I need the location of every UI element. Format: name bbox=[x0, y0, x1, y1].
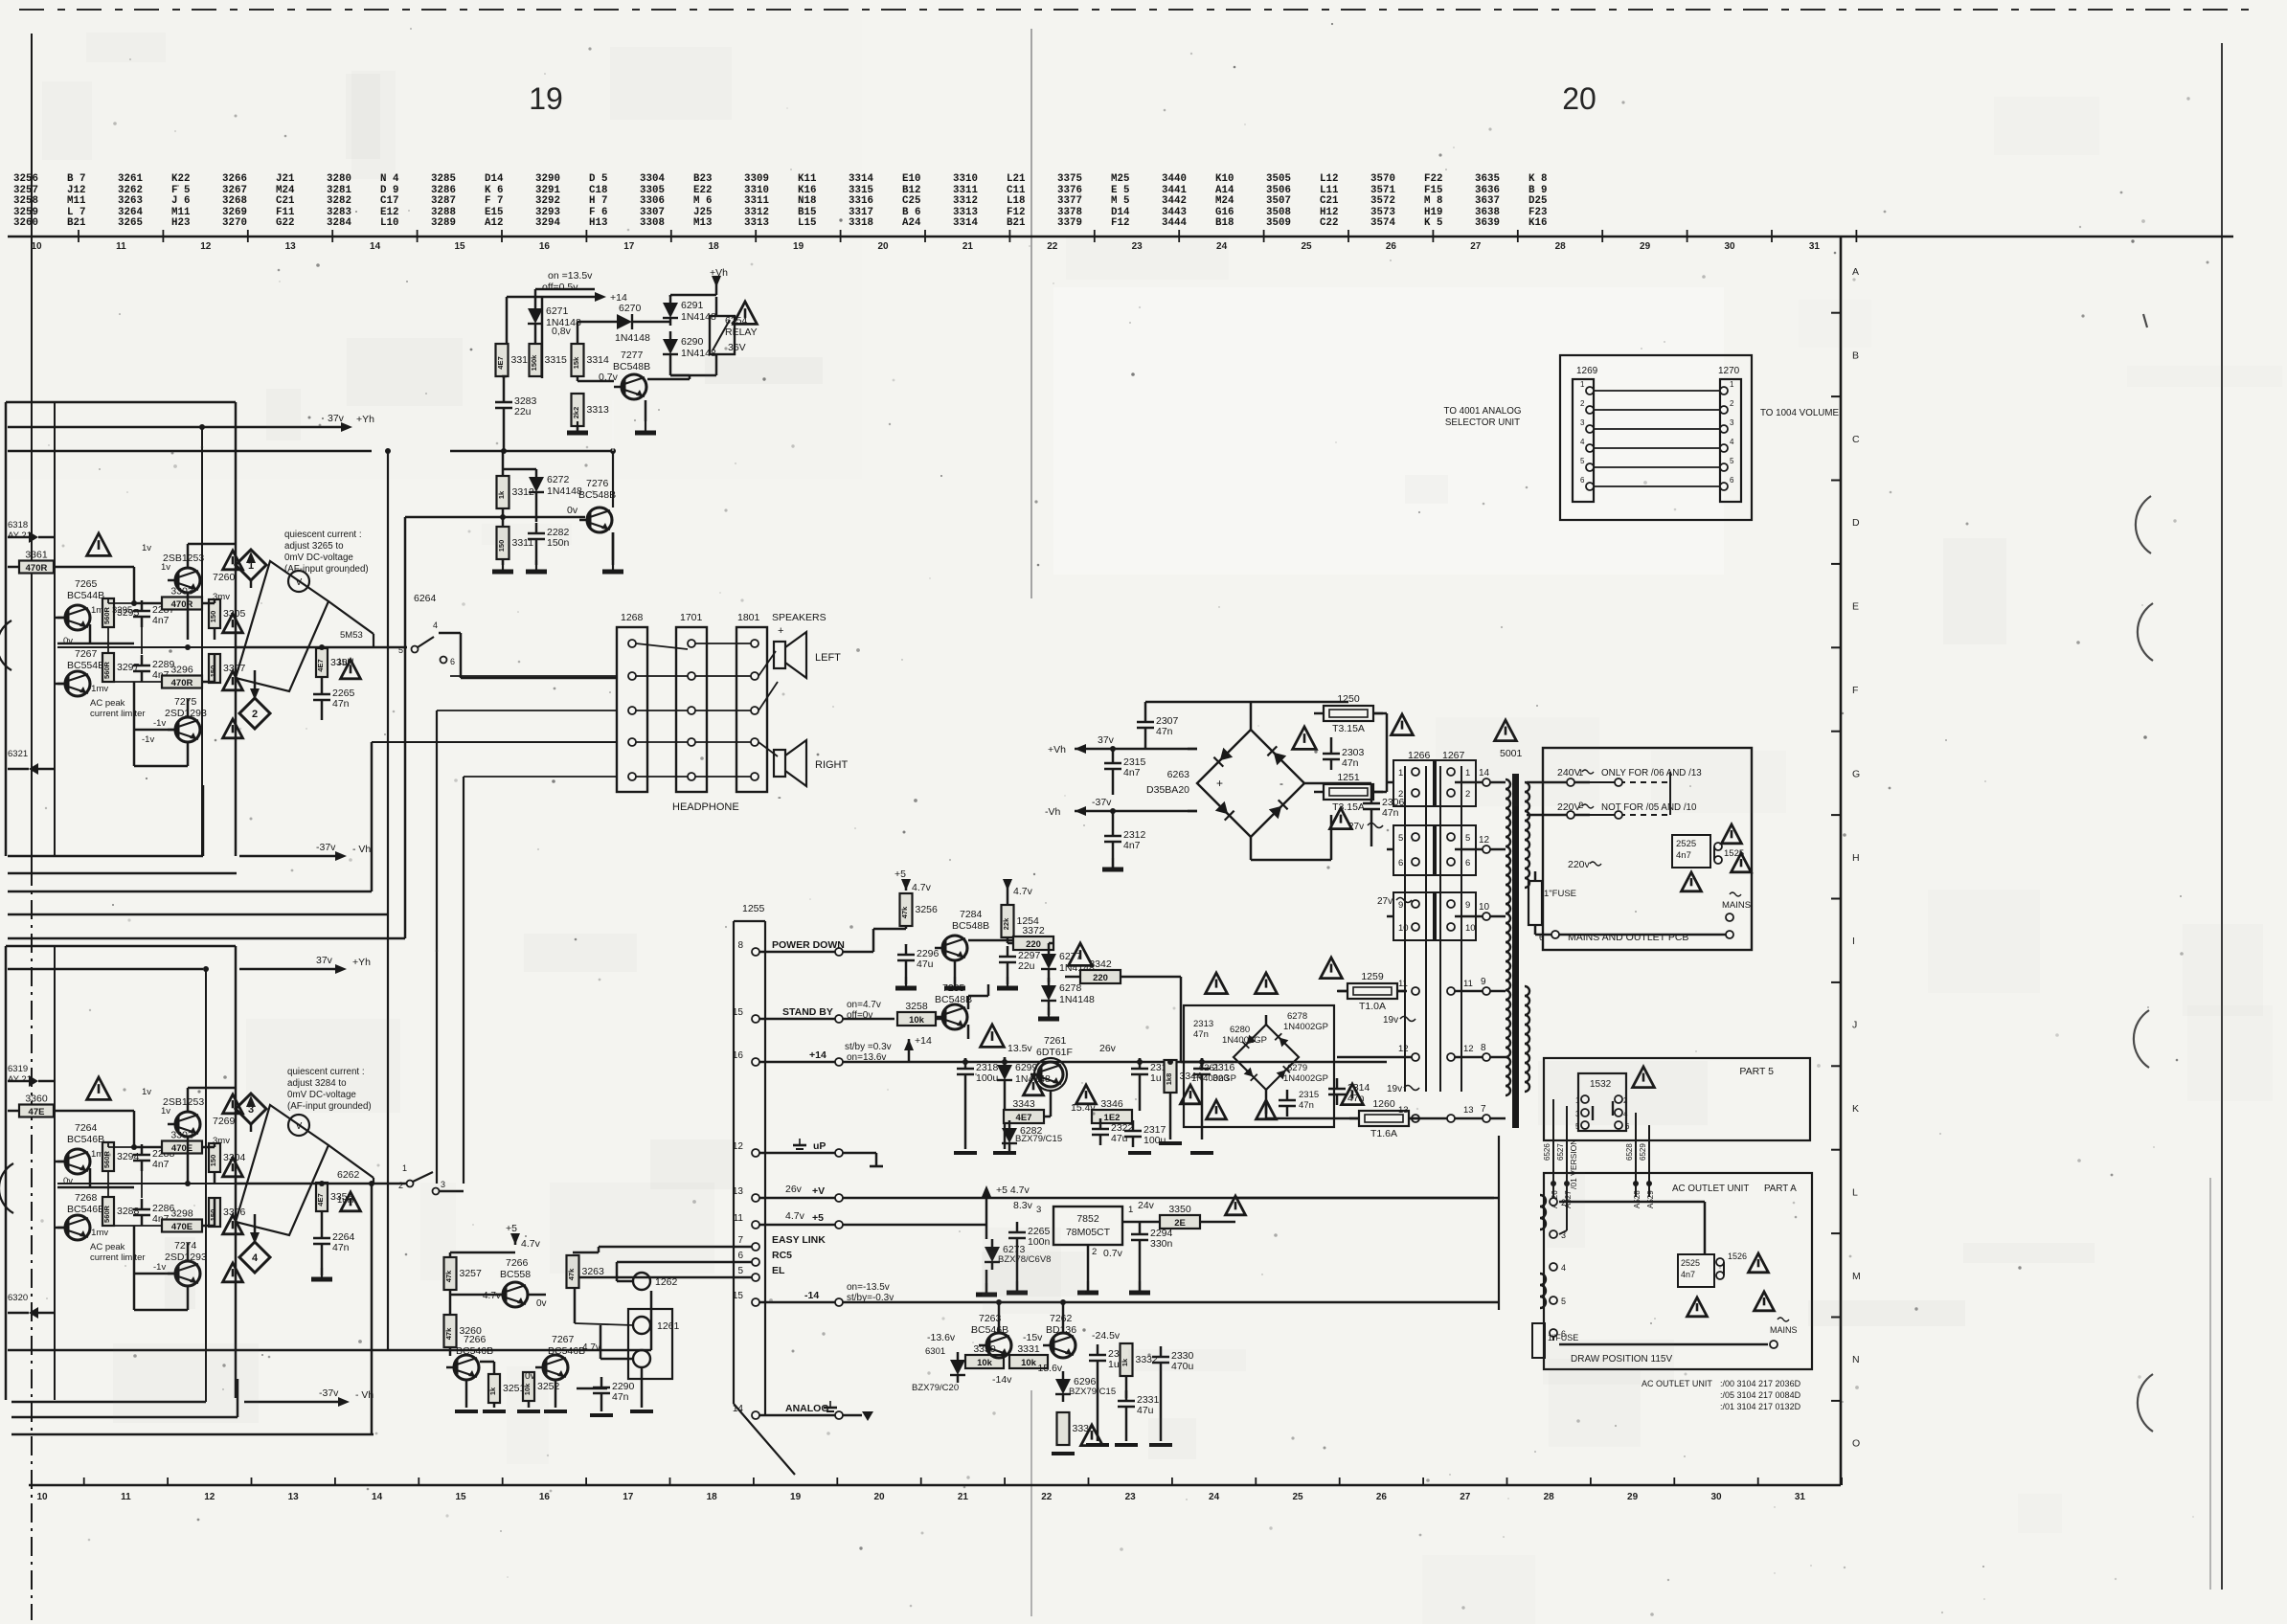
svg-text:14: 14 bbox=[370, 241, 381, 252]
svg-text:6271: 6271 bbox=[546, 305, 569, 317]
svg-text:150: 150 bbox=[209, 665, 217, 678]
svg-text:1N4148: 1N4148 bbox=[547, 485, 582, 497]
svg-text:BC558: BC558 bbox=[500, 1269, 531, 1280]
connector circles 1262 1261 bbox=[633, 1273, 650, 1290]
svg-text:6290: 6290 bbox=[681, 336, 704, 348]
warning row below bridge bbox=[1207, 1100, 1227, 1119]
wire +Yh lower rail bbox=[8, 968, 203, 971]
svg-text:10: 10 bbox=[36, 1492, 48, 1502]
warning bbox=[1749, 1253, 1769, 1273]
wire vertical x484 bbox=[463, 777, 464, 1184]
ground bbox=[905, 977, 907, 988]
svg-text:6301: 6301 bbox=[925, 1346, 945, 1357]
wire interlink 2 bbox=[1586, 406, 1594, 414]
svg-text:16: 16 bbox=[539, 241, 551, 252]
switch 1525 bbox=[1714, 843, 1722, 850]
svg-text:1v: 1v bbox=[161, 1106, 170, 1116]
svg-text:19v: 19v bbox=[1383, 1015, 1398, 1026]
svg-text:470R: 470R bbox=[26, 563, 48, 574]
svg-text:MAINS: MAINS bbox=[1722, 900, 1751, 911]
svg-text:22: 22 bbox=[1041, 1492, 1053, 1502]
svg-text:4n7: 4n7 bbox=[1123, 767, 1141, 778]
wire bbox=[55, 617, 65, 620]
svg-text:PART A: PART A bbox=[1764, 1184, 1797, 1194]
svg-text:22u: 22u bbox=[514, 406, 532, 417]
resistor 3360 470R bbox=[19, 1105, 54, 1117]
resistor 3316 bbox=[496, 344, 509, 376]
svg-text:3263: 3263 bbox=[118, 195, 143, 207]
capacitor 2264 47n bbox=[313, 1237, 330, 1240]
wire el row bbox=[575, 1276, 752, 1279]
svg-text:11: 11 bbox=[121, 1492, 131, 1502]
wire interlink 3 bbox=[1586, 425, 1594, 433]
svg-text:3284: 3284 bbox=[327, 217, 351, 229]
wire +5 row bbox=[759, 1224, 835, 1227]
svg-text:-15.6v: -15.6v bbox=[1034, 1363, 1063, 1374]
svg-text:8.3v: 8.3v bbox=[1013, 1200, 1033, 1211]
svg-text:AY 21: AY 21 bbox=[8, 530, 32, 541]
svg-text:47n: 47n bbox=[332, 698, 350, 710]
diode 6296 BZX79/C15 bbox=[1055, 1379, 1071, 1394]
svg-text:47E: 47E bbox=[29, 1107, 45, 1117]
svg-text:BC544B: BC544B bbox=[67, 590, 104, 601]
svg-text:13.5v: 13.5v bbox=[1008, 1043, 1032, 1054]
svg-text:3350: 3350 bbox=[1168, 1204, 1191, 1215]
capacitor 2317 100u bbox=[1124, 1130, 1142, 1133]
diode 6290 1N4148 bbox=[663, 339, 678, 354]
resistor 3302 470R bbox=[162, 1141, 202, 1154]
wire -14 row components bbox=[998, 1302, 1001, 1333]
svg-text:7852: 7852 bbox=[1076, 1213, 1099, 1225]
svg-text:150: 150 bbox=[209, 1209, 217, 1222]
relay 1532 bbox=[1578, 1073, 1626, 1131]
svg-text:D14: D14 bbox=[485, 173, 504, 185]
svg-text:4.7v: 4.7v bbox=[483, 1291, 501, 1301]
ground bbox=[985, 1283, 987, 1295]
svg-text:+Vh: +Vh bbox=[710, 267, 728, 279]
warning bbox=[341, 660, 361, 679]
resistor 3263 47k bbox=[567, 1255, 579, 1288]
resistor 3294 560R bbox=[102, 1142, 114, 1171]
svg-text:+5: +5 bbox=[894, 868, 906, 880]
svg-text:BZX79/C15: BZX79/C15 bbox=[1015, 1134, 1062, 1144]
ground bar bbox=[993, 1151, 1016, 1155]
svg-text:78M05CT: 78M05CT bbox=[1066, 1227, 1111, 1238]
svg-text:9: 9 bbox=[1481, 977, 1486, 987]
svg-text:6528: 6528 bbox=[1625, 1143, 1634, 1161]
svg-text:1N4002GP: 1N4002GP bbox=[1283, 1022, 1328, 1032]
wire bbox=[577, 321, 609, 324]
wire lower x484 to bus bbox=[439, 1190, 464, 1193]
wire riser x388 bbox=[371, 742, 374, 891]
svg-text:10: 10 bbox=[1465, 923, 1476, 934]
svg-text:TO 4001 ANALOG: TO 4001 ANALOG bbox=[1444, 406, 1522, 417]
svg-text:0mV DC-voltage: 0mV DC-voltage bbox=[284, 553, 353, 563]
svg-text:A: A bbox=[1852, 266, 1859, 278]
warning bbox=[87, 1077, 111, 1099]
svg-text:4n7: 4n7 bbox=[1123, 840, 1141, 851]
svg-text:AC OUTLET UNIT: AC OUTLET UNIT bbox=[1672, 1184, 1749, 1194]
svg-text:3314: 3314 bbox=[587, 354, 610, 366]
wire -37Vh bus bbox=[8, 855, 203, 858]
svg-text:H 7: H 7 bbox=[589, 195, 607, 207]
svg-text:24v: 24v bbox=[1138, 1200, 1155, 1211]
scan artifacts right margin bbox=[2136, 496, 2151, 553]
svg-text:7: 7 bbox=[1481, 1104, 1486, 1115]
wire interlink 5 bbox=[1586, 463, 1594, 471]
svg-text:3: 3 bbox=[1730, 418, 1734, 427]
svg-text:11: 11 bbox=[1463, 979, 1473, 989]
wire bbox=[55, 1161, 65, 1163]
center page fold line bbox=[1030, 29, 1032, 598]
svg-text:4.7v: 4.7v bbox=[785, 1210, 805, 1222]
wire bbox=[449, 1290, 452, 1314]
resistor 3330 10k bbox=[965, 1355, 1004, 1368]
warning bbox=[223, 1215, 243, 1234]
svg-text:21: 21 bbox=[962, 241, 974, 252]
meter V circle bbox=[288, 1115, 309, 1136]
svg-text:M11: M11 bbox=[67, 195, 86, 207]
wire lower bus rows bbox=[8, 1349, 651, 1352]
svg-text:15k: 15k bbox=[572, 356, 580, 369]
resistor 3256 47k bbox=[900, 893, 913, 926]
svg-text:1k8: 1k8 bbox=[1165, 1073, 1173, 1086]
wire main row y=471 bbox=[450, 450, 613, 453]
svg-text:B21: B21 bbox=[1007, 217, 1026, 229]
svg-text:4.7v: 4.7v bbox=[1013, 886, 1033, 897]
svg-text:M 5: M 5 bbox=[1111, 195, 1129, 207]
svg-text:0,8v: 0,8v bbox=[552, 326, 572, 337]
connector 1266 column bbox=[1404, 766, 1406, 1092]
wire relay branch bbox=[669, 295, 672, 297]
svg-text:7262: 7262 bbox=[1050, 1313, 1073, 1324]
parts list text band bbox=[13, 173, 1547, 229]
svg-text:4E7: 4E7 bbox=[316, 659, 325, 671]
mains and outlet PCB box bbox=[1543, 748, 1752, 950]
svg-text:K 8: K 8 bbox=[1528, 173, 1547, 185]
warning bbox=[223, 1263, 243, 1282]
svg-text:330n: 330n bbox=[1150, 1238, 1173, 1250]
svg-text:2: 2 bbox=[398, 1181, 403, 1190]
svg-text:12: 12 bbox=[1479, 835, 1490, 846]
resistor 3306 150R bbox=[209, 1198, 220, 1227]
svg-text:0v: 0v bbox=[567, 505, 578, 516]
svg-text:1v: 1v bbox=[142, 543, 151, 553]
svg-text:9: 9 bbox=[1465, 900, 1470, 911]
meter V circle bbox=[288, 571, 309, 592]
wire emitter bbox=[612, 451, 614, 507]
svg-text:F 7: F 7 bbox=[485, 195, 503, 207]
svg-text:N18: N18 bbox=[798, 195, 816, 207]
svg-text:3282: 3282 bbox=[327, 195, 351, 207]
svg-text:3315: 3315 bbox=[545, 354, 568, 366]
pin 15 STAND BY bbox=[752, 1015, 759, 1023]
capacitor 2322 47u bbox=[1092, 1128, 1109, 1131]
svg-text:20: 20 bbox=[1562, 81, 1596, 116]
svg-text:RIGHT: RIGHT bbox=[815, 759, 849, 771]
svg-text:3440: 3440 bbox=[1162, 173, 1187, 185]
svg-text:3312: 3312 bbox=[953, 195, 978, 207]
svg-text:AC peak: AC peak bbox=[90, 1242, 125, 1252]
pin 11 +5 bbox=[752, 1221, 759, 1229]
resistor 3331 10k bbox=[1009, 1355, 1048, 1368]
warning bbox=[223, 671, 243, 690]
svg-text:47n: 47n bbox=[612, 1391, 629, 1403]
svg-text:B21: B21 bbox=[67, 217, 86, 229]
warning bbox=[223, 719, 243, 738]
svg-text:7284: 7284 bbox=[960, 909, 983, 920]
svg-text:470E: 470E bbox=[171, 1143, 192, 1154]
wire 0v rail lower bbox=[57, 1183, 215, 1184]
svg-text:27v: 27v bbox=[1377, 896, 1393, 907]
connector pins 13 bbox=[1412, 1115, 1419, 1122]
svg-text:47n: 47n bbox=[1382, 807, 1399, 819]
svg-text:3377: 3377 bbox=[1057, 195, 1082, 207]
svg-text:current limiter: current limiter bbox=[90, 709, 146, 719]
resistor 3303 470R bbox=[162, 598, 202, 610]
wires 6526-6529 vertical bbox=[1552, 1099, 1554, 1187]
resistor 3313 bbox=[572, 394, 584, 426]
wire regulator in/out bbox=[1122, 1221, 1159, 1224]
svg-text:5: 5 bbox=[1398, 833, 1403, 844]
wire bridge top bbox=[1188, 748, 1197, 751]
svg-text:I: I bbox=[1852, 936, 1855, 947]
svg-text:L21: L21 bbox=[1007, 173, 1026, 185]
bottom ruler line bbox=[29, 1484, 1841, 1487]
ground bbox=[1016, 1281, 1018, 1293]
svg-text:37v: 37v bbox=[316, 955, 333, 966]
wire +Yh rail bbox=[8, 426, 345, 429]
svg-text:3280: 3280 bbox=[327, 173, 351, 185]
svg-text:3296: 3296 bbox=[170, 665, 193, 676]
svg-text:7285: 7285 bbox=[942, 982, 965, 994]
diode 6272 1N4148 bbox=[529, 477, 544, 492]
svg-text:-24.5v: -24.5v bbox=[1092, 1330, 1121, 1342]
svg-text:BC554B: BC554B bbox=[67, 660, 104, 671]
wire bbox=[534, 331, 537, 343]
svg-text:T3.15A: T3.15A bbox=[1332, 723, 1365, 734]
svg-text:N: N bbox=[1852, 1354, 1860, 1365]
low voltage bridge box bbox=[1184, 1005, 1334, 1127]
wire interlink 6 bbox=[1586, 483, 1594, 490]
svg-text:4E7: 4E7 bbox=[316, 1193, 325, 1206]
svg-text:K11: K11 bbox=[798, 173, 817, 185]
svg-text:K: K bbox=[1852, 1103, 1859, 1115]
wire upper 6264 feed bbox=[236, 646, 407, 649]
svg-text:4: 4 bbox=[1561, 1263, 1566, 1273]
svg-text:12: 12 bbox=[200, 241, 212, 252]
svg-text:2: 2 bbox=[1580, 399, 1585, 408]
svg-text:220v: 220v bbox=[1568, 859, 1591, 870]
svg-text:1k: 1k bbox=[1121, 1358, 1129, 1366]
svg-text:10: 10 bbox=[31, 241, 42, 252]
wire riser x423 bbox=[404, 517, 407, 938]
ground bbox=[502, 560, 504, 572]
svg-text:4.7v: 4.7v bbox=[521, 1238, 541, 1250]
coil 3359 1uH bbox=[316, 648, 328, 677]
svg-text:3507: 3507 bbox=[1266, 195, 1291, 207]
capacitor 2282 150n bbox=[528, 532, 545, 535]
svg-text:st/by =0.3v: st/by =0.3v bbox=[845, 1042, 892, 1052]
ground bbox=[612, 560, 614, 572]
connector pins 5/6 bbox=[1393, 825, 1434, 875]
svg-text:M 8: M 8 bbox=[1424, 195, 1442, 207]
svg-text:19: 19 bbox=[793, 241, 804, 252]
svg-text:L10: L10 bbox=[380, 217, 398, 229]
ground bbox=[954, 977, 956, 988]
wire +14 row bbox=[759, 1061, 835, 1064]
svg-text:23: 23 bbox=[1125, 1492, 1137, 1502]
ground bbox=[535, 560, 537, 572]
svg-text:-15v: -15v bbox=[1023, 1332, 1043, 1343]
svg-text:17: 17 bbox=[623, 1492, 634, 1502]
svg-text:7261: 7261 bbox=[1044, 1035, 1067, 1047]
capacitor 2297 22u bbox=[999, 956, 1016, 959]
svg-text:-1mv: -1mv bbox=[88, 1228, 108, 1238]
svg-text:470R: 470R bbox=[171, 678, 193, 688]
svg-text:30: 30 bbox=[1724, 241, 1735, 252]
connector pins bbox=[628, 640, 636, 647]
svg-text:22: 22 bbox=[1047, 241, 1058, 252]
svg-text:+5 4.7v: +5 4.7v bbox=[996, 1184, 1030, 1196]
svg-text:7267: 7267 bbox=[75, 648, 98, 660]
svg-text:1: 1 bbox=[402, 1163, 407, 1173]
wire bus row 1498 bbox=[11, 1433, 374, 1436]
svg-text:-37v: -37v bbox=[319, 1387, 339, 1399]
svg-text:560R: 560R bbox=[102, 1150, 111, 1168]
svg-text:3265: 3265 bbox=[118, 217, 143, 229]
svg-text:0.7v: 0.7v bbox=[1103, 1248, 1123, 1259]
warning bbox=[1081, 1425, 1103, 1446]
wire interlink 4 bbox=[1586, 444, 1594, 452]
svg-text:3570: 3570 bbox=[1370, 173, 1395, 185]
fuse 1259 T1.0A bbox=[1347, 983, 1397, 999]
svg-text:36V: 36V bbox=[728, 342, 746, 353]
svg-text:ANALOG: ANALOG bbox=[785, 1403, 829, 1414]
svg-text:1N4148: 1N4148 bbox=[1059, 994, 1095, 1005]
svg-text:13: 13 bbox=[1463, 1105, 1474, 1116]
wire vertical x1565 bbox=[1498, 1136, 1500, 1310]
warning bbox=[1722, 824, 1742, 844]
wire bus rows bbox=[8, 872, 237, 875]
wire outlet internal bbox=[1559, 1201, 1705, 1204]
svg-text:3257: 3257 bbox=[460, 1268, 483, 1279]
svg-text:B: B bbox=[1852, 350, 1859, 361]
svg-text:6: 6 bbox=[737, 1251, 743, 1261]
svg-text:7266: 7266 bbox=[464, 1334, 487, 1345]
diode 6270 1N4148 bbox=[617, 314, 632, 329]
ground bar bbox=[1052, 1452, 1075, 1455]
svg-text::/00 3104 217 2036D: :/00 3104 217 2036D bbox=[1720, 1379, 1801, 1388]
diamond node 3 bbox=[236, 1094, 266, 1124]
capacitor 3283 22u bbox=[495, 401, 512, 404]
svg-text:K22: K22 bbox=[171, 173, 190, 185]
svg-text:1270: 1270 bbox=[1718, 366, 1740, 376]
svg-text:3268: 3268 bbox=[222, 195, 247, 207]
svg-text:8: 8 bbox=[737, 940, 743, 951]
svg-text:2525: 2525 bbox=[1676, 839, 1696, 849]
svg-text:J 6: J 6 bbox=[171, 195, 190, 207]
svg-text:3270: 3270 bbox=[222, 217, 247, 229]
left margin bracket bbox=[0, 620, 11, 670]
svg-text:3505: 3505 bbox=[1266, 173, 1291, 185]
resistor 3343 4E7 bbox=[1004, 1110, 1044, 1123]
resistor 3315 bbox=[530, 344, 542, 376]
svg-text:3372: 3372 bbox=[1022, 925, 1045, 936]
switch 1526 bbox=[1716, 1258, 1724, 1266]
capacitor 2326 1u bbox=[1089, 1354, 1106, 1357]
fuse 1260 T1.6A bbox=[1359, 1111, 1409, 1126]
wire power down row bbox=[759, 951, 835, 954]
svg-text:560R: 560R bbox=[102, 606, 111, 624]
resistor 1254 bbox=[1002, 905, 1014, 937]
PART 5 box bbox=[1544, 1058, 1810, 1140]
svg-text:6280: 6280 bbox=[1230, 1025, 1250, 1035]
svg-text:6299: 6299 bbox=[1015, 1062, 1038, 1073]
svg-text:+: + bbox=[1216, 777, 1223, 790]
resistor 3260 47k bbox=[444, 1315, 457, 1347]
svg-text:6278: 6278 bbox=[1059, 982, 1082, 994]
capacitor 2315 4n7 bbox=[1104, 762, 1121, 765]
svg-text:0v: 0v bbox=[63, 636, 73, 646]
wire -14 row bbox=[759, 1301, 835, 1304]
warning bbox=[1321, 958, 1343, 979]
svg-text:3313: 3313 bbox=[587, 404, 610, 416]
resistor 3311 bbox=[497, 527, 509, 559]
svg-text:F22: F22 bbox=[1424, 173, 1442, 185]
diode 6299 1N4148 bbox=[997, 1065, 1012, 1080]
resistor 3350 2E bbox=[1160, 1215, 1200, 1229]
svg-text:EL: EL bbox=[772, 1265, 785, 1276]
capacitor 2525 4n7 bbox=[1672, 835, 1710, 868]
svg-text:5: 5 bbox=[1580, 457, 1585, 465]
capacitor 2316 3n3 bbox=[1193, 1068, 1211, 1071]
resistor 3333 bbox=[1057, 1412, 1070, 1445]
svg-text:quiescent current :: quiescent current : bbox=[284, 530, 362, 540]
diode 6277 1N4148 bbox=[1041, 954, 1056, 969]
svg-text:BC546B: BC546B bbox=[67, 1204, 104, 1215]
svg-text:+Vh: +Vh bbox=[1048, 744, 1066, 756]
amplifier block frame lower bbox=[6, 945, 236, 948]
svg-text:3343: 3343 bbox=[1012, 1098, 1035, 1110]
svg-text:150: 150 bbox=[209, 611, 217, 623]
svg-text:H: H bbox=[1852, 852, 1860, 864]
svg-text:SELECTOR UNIT: SELECTOR UNIT bbox=[1445, 417, 1520, 428]
resistor 3251 bbox=[488, 1374, 500, 1403]
pin 7 EASY LINK bbox=[752, 1243, 759, 1251]
resistor 3295 560R bbox=[102, 598, 114, 627]
svg-text:10k: 10k bbox=[977, 1358, 993, 1368]
svg-text::/01 3104 217 0132D: :/01 3104 217 0132D bbox=[1720, 1402, 1801, 1411]
svg-text:29: 29 bbox=[1640, 241, 1651, 252]
svg-text:3287: 3287 bbox=[431, 195, 456, 207]
coil 3358 1uH bbox=[316, 1183, 328, 1211]
wire y471 relay row bbox=[8, 450, 372, 453]
connector 1267 column bbox=[1439, 766, 1441, 1092]
svg-text:5: 5 bbox=[737, 1266, 743, 1276]
svg-text:15: 15 bbox=[454, 241, 465, 252]
svg-text:B18: B18 bbox=[1215, 217, 1234, 229]
wire 0v rail bbox=[57, 646, 215, 648]
wire bridge bottom bbox=[1250, 837, 1253, 860]
svg-text:K16: K16 bbox=[1528, 217, 1547, 229]
svg-text:-: - bbox=[1279, 777, 1283, 790]
svg-text:10k: 10k bbox=[909, 1015, 925, 1026]
svg-text:6DT61F: 6DT61F bbox=[1036, 1047, 1073, 1058]
svg-text:O: O bbox=[1852, 1438, 1860, 1450]
svg-text:1: 1 bbox=[1730, 380, 1734, 389]
svg-text:B 7: B 7 bbox=[67, 173, 85, 185]
